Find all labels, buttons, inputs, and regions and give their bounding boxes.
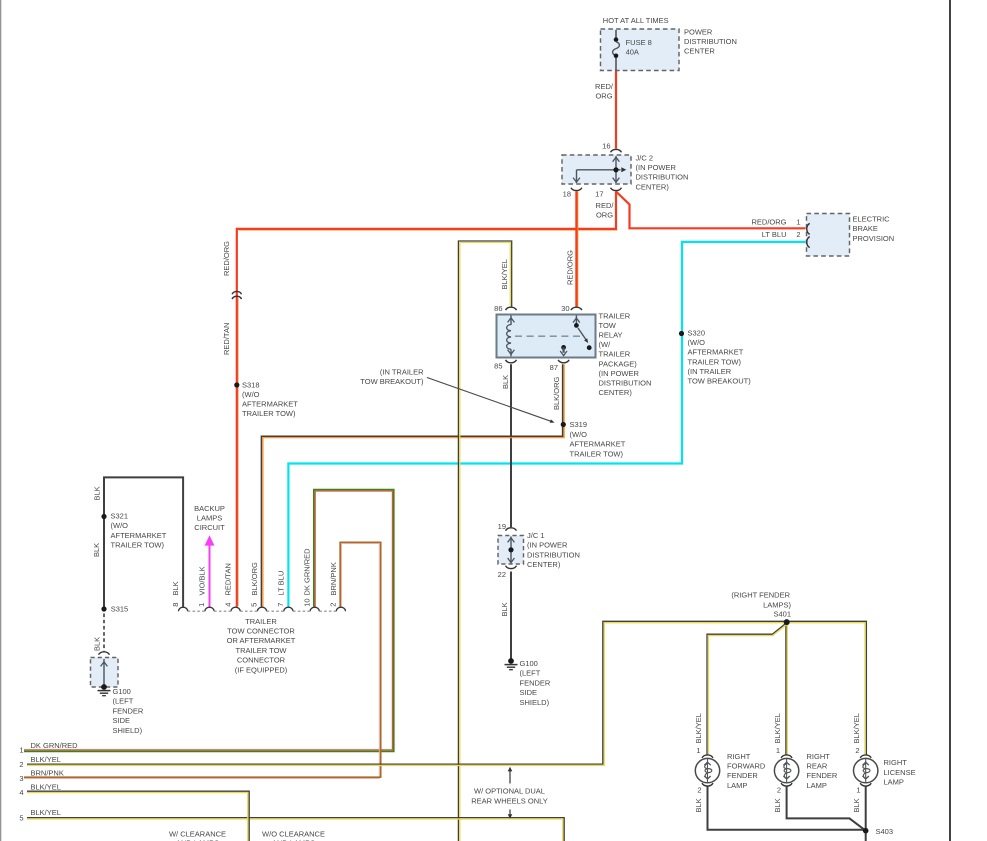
svg-text:TRAILER TOW: TRAILER TOW: [236, 646, 288, 655]
svg-text:BLK/ORG: BLK/ORG: [552, 376, 561, 410]
svg-text:AFTERMARKET: AFTERMARKET: [242, 399, 298, 408]
svg-text:CENTER): CENTER): [527, 560, 561, 569]
svg-text:85: 85: [494, 361, 502, 370]
svg-text:TRAILER TOW): TRAILER TOW): [242, 409, 296, 418]
svg-text:(W/O: (W/O: [570, 430, 588, 439]
svg-text:8: 8: [171, 603, 180, 607]
svg-text:BLK: BLK: [93, 637, 102, 651]
svg-text:FUSE 8: FUSE 8: [626, 38, 652, 47]
svg-text:CONNECTOR: CONNECTOR: [237, 656, 286, 665]
svg-text:BLK: BLK: [773, 798, 782, 812]
svg-text:RIGHT: RIGHT: [884, 758, 908, 767]
svg-text:TRAILER: TRAILER: [599, 312, 631, 321]
svg-text:LAMP: LAMP: [807, 781, 827, 790]
svg-text:POWER: POWER: [684, 27, 713, 36]
svg-text:BRN/PNK: BRN/PNK: [329, 562, 338, 595]
svg-text:HOT AT ALL TIMES: HOT AT ALL TIMES: [603, 16, 669, 25]
svg-text:BLK/YEL: BLK/YEL: [773, 713, 782, 743]
svg-text:G100: G100: [520, 659, 538, 668]
svg-text:3: 3: [19, 774, 23, 783]
svg-text:BLK/YEL: BLK/YEL: [500, 259, 509, 289]
svg-text:TOW BREAKOUT): TOW BREAKOUT): [360, 377, 424, 386]
svg-text:BLK: BLK: [93, 486, 102, 500]
svg-text:ORG: ORG: [595, 92, 612, 101]
svg-text:DISTRIBUTION: DISTRIBUTION: [636, 173, 689, 182]
svg-text:RIGHT: RIGHT: [807, 752, 831, 761]
svg-text:TOW: TOW: [599, 321, 617, 330]
svg-text:(W/O: (W/O: [242, 390, 260, 399]
svg-text:PROVISION: PROVISION: [853, 234, 895, 243]
svg-text:BLK: BLK: [501, 375, 510, 389]
svg-text:LAMPS): LAMPS): [763, 601, 791, 610]
svg-text:BACKUP: BACKUP: [194, 504, 225, 513]
svg-text:BLK: BLK: [92, 543, 101, 557]
svg-text:BLK/ORG: BLK/ORG: [250, 562, 259, 596]
svg-text:(IN TRAILER: (IN TRAILER: [380, 367, 424, 376]
svg-text:(LEFT: (LEFT: [520, 669, 541, 678]
svg-text:BRN/PNK: BRN/PNK: [31, 769, 64, 778]
svg-text:(IN TRAILER: (IN TRAILER: [688, 367, 732, 376]
svg-text:S321: S321: [111, 512, 129, 521]
svg-text:TRAILER TOW): TRAILER TOW): [570, 449, 624, 458]
svg-text:2: 2: [855, 746, 859, 755]
svg-text:BLK: BLK: [694, 798, 703, 812]
svg-text:16: 16: [602, 142, 610, 151]
svg-text:RIGHT: RIGHT: [727, 752, 751, 761]
svg-text:(RIGHT FENDER: (RIGHT FENDER: [731, 590, 790, 599]
svg-text:S315: S315: [111, 605, 129, 614]
svg-text:5: 5: [250, 603, 259, 607]
svg-text:86: 86: [494, 304, 502, 313]
svg-text:S320: S320: [688, 329, 706, 338]
svg-text:G100: G100: [113, 687, 131, 696]
svg-text:W/O CLEARANCE: W/O CLEARANCE: [262, 829, 325, 838]
svg-text:BLK: BLK: [171, 581, 180, 595]
svg-text:SIDE: SIDE: [113, 716, 131, 725]
svg-text:BLK: BLK: [852, 798, 861, 812]
svg-text:(W/O: (W/O: [688, 338, 706, 347]
svg-text:RED/ORG: RED/ORG: [222, 241, 231, 276]
svg-text:REAR: REAR: [807, 762, 828, 771]
svg-text:DK GRN/RED: DK GRN/RED: [303, 548, 312, 596]
svg-text:DISTRIBUTION: DISTRIBUTION: [684, 37, 737, 46]
svg-text:2: 2: [329, 603, 338, 607]
svg-text:W/ OPTIONAL DUAL: W/ OPTIONAL DUAL: [474, 787, 545, 796]
svg-text:ELECTRIC: ELECTRIC: [853, 215, 891, 224]
svg-text:FENDER: FENDER: [807, 771, 838, 780]
svg-text:SHIELD): SHIELD): [520, 698, 550, 707]
svg-text:(IN POWER: (IN POWER: [636, 163, 677, 172]
svg-text:BLK/YEL: BLK/YEL: [31, 755, 61, 764]
svg-text:(IN POWER: (IN POWER: [599, 369, 640, 378]
svg-text:S319: S319: [570, 420, 588, 429]
svg-text:TRAILER TOW): TRAILER TOW): [688, 357, 742, 366]
svg-text:AFTERMARKET: AFTERMARKET: [570, 440, 626, 449]
svg-text:1: 1: [19, 745, 23, 754]
svg-text:PACKAGE): PACKAGE): [599, 359, 638, 368]
svg-text:OR AFTERMARKET: OR AFTERMARKET: [227, 636, 296, 645]
svg-text:RED/ORG: RED/ORG: [566, 250, 575, 285]
svg-text:TOW CONNECTOR: TOW CONNECTOR: [227, 627, 295, 636]
svg-text:LICENSE: LICENSE: [884, 768, 916, 777]
svg-text:BLK/YEL: BLK/YEL: [31, 783, 61, 792]
svg-text:5: 5: [19, 813, 23, 822]
svg-text:18: 18: [563, 190, 571, 199]
svg-text:40A: 40A: [626, 47, 639, 56]
svg-text:4: 4: [223, 603, 232, 607]
svg-text:(W/: (W/: [599, 340, 612, 349]
svg-text:2: 2: [796, 230, 800, 239]
svg-text:CENTER: CENTER: [684, 47, 715, 56]
svg-text:1: 1: [197, 603, 206, 607]
svg-text:VIO/BLK: VIO/BLK: [197, 566, 206, 595]
svg-text:RELAY: RELAY: [599, 331, 623, 340]
svg-text:REAR WHEELS ONLY: REAR WHEELS ONLY: [471, 796, 548, 805]
svg-text:1: 1: [776, 746, 780, 755]
svg-text:BLK/YEL: BLK/YEL: [852, 713, 861, 743]
svg-text:(IF EQUIPPED): (IF EQUIPPED): [235, 665, 288, 674]
svg-text:7: 7: [276, 603, 285, 607]
svg-text:BLK: BLK: [500, 602, 509, 616]
svg-text:S403: S403: [876, 827, 894, 836]
svg-text:DISTRIBUTION: DISTRIBUTION: [527, 550, 580, 559]
svg-text:1: 1: [796, 218, 800, 227]
svg-text:BRAKE: BRAKE: [853, 224, 878, 233]
svg-text:(W/O: (W/O: [111, 521, 129, 530]
svg-text:BLK/YEL: BLK/YEL: [31, 808, 61, 817]
svg-text:S318: S318: [242, 381, 260, 390]
svg-text:22: 22: [498, 570, 506, 579]
svg-text:(IN POWER: (IN POWER: [527, 541, 568, 550]
svg-text:LAMP: LAMP: [884, 778, 904, 787]
svg-text:ORG: ORG: [596, 211, 613, 220]
svg-text:FENDER: FENDER: [727, 771, 758, 780]
svg-text:FENDER: FENDER: [113, 706, 144, 715]
svg-text:DK GRN/RED: DK GRN/RED: [31, 741, 79, 750]
svg-text:30: 30: [561, 304, 569, 313]
svg-text:CIRCUIT: CIRCUIT: [194, 523, 225, 532]
svg-text:CENTER): CENTER): [636, 182, 670, 191]
svg-text:RED/TAN: RED/TAN: [224, 563, 233, 595]
svg-text:87: 87: [550, 363, 558, 372]
svg-text:RED/TAN: RED/TAN: [222, 323, 231, 355]
svg-text:AFTERMARKET: AFTERMARKET: [111, 531, 167, 540]
svg-text:FENDER: FENDER: [520, 678, 551, 687]
svg-text:2: 2: [777, 785, 781, 794]
svg-text:W/ CLEARANCE: W/ CLEARANCE: [169, 829, 226, 838]
svg-text:TOW BREAKOUT): TOW BREAKOUT): [688, 376, 752, 385]
svg-text:2: 2: [19, 760, 23, 769]
svg-text:17: 17: [595, 190, 603, 199]
svg-text:BLK/YEL: BLK/YEL: [694, 713, 703, 743]
svg-text:LAMP: LAMP: [727, 781, 747, 790]
svg-text:LT BLU: LT BLU: [276, 571, 285, 596]
svg-text:RED/ORG: RED/ORG: [751, 218, 786, 227]
svg-text:TRAILER: TRAILER: [245, 617, 277, 626]
svg-text:RED/: RED/: [595, 82, 614, 91]
svg-text:4: 4: [19, 788, 23, 797]
svg-text:S401: S401: [773, 610, 791, 619]
svg-text:J/C 1: J/C 1: [527, 531, 545, 540]
svg-text:2: 2: [697, 785, 701, 794]
svg-text:DISTRIBUTION: DISTRIBUTION: [599, 378, 652, 387]
svg-text:TRAILER TOW): TRAILER TOW): [111, 541, 165, 550]
svg-text:19: 19: [498, 522, 506, 531]
svg-text:1: 1: [856, 785, 860, 794]
svg-text:RED/: RED/: [596, 201, 615, 210]
svg-text:10: 10: [302, 598, 311, 606]
svg-text:1: 1: [696, 746, 700, 755]
svg-text:J/C 2: J/C 2: [636, 153, 654, 162]
svg-text:AFTERMARKET: AFTERMARKET: [688, 348, 744, 357]
svg-text:(LEFT: (LEFT: [113, 697, 134, 706]
svg-text:CENTER): CENTER): [599, 388, 633, 397]
svg-text:SHIELD): SHIELD): [113, 726, 143, 735]
svg-text:LAMPS: LAMPS: [197, 514, 222, 523]
svg-text:TRAILER: TRAILER: [599, 350, 631, 359]
svg-text:LT BLU: LT BLU: [762, 230, 787, 239]
svg-text:SIDE: SIDE: [520, 688, 538, 697]
svg-text:FORWARD: FORWARD: [727, 762, 766, 771]
